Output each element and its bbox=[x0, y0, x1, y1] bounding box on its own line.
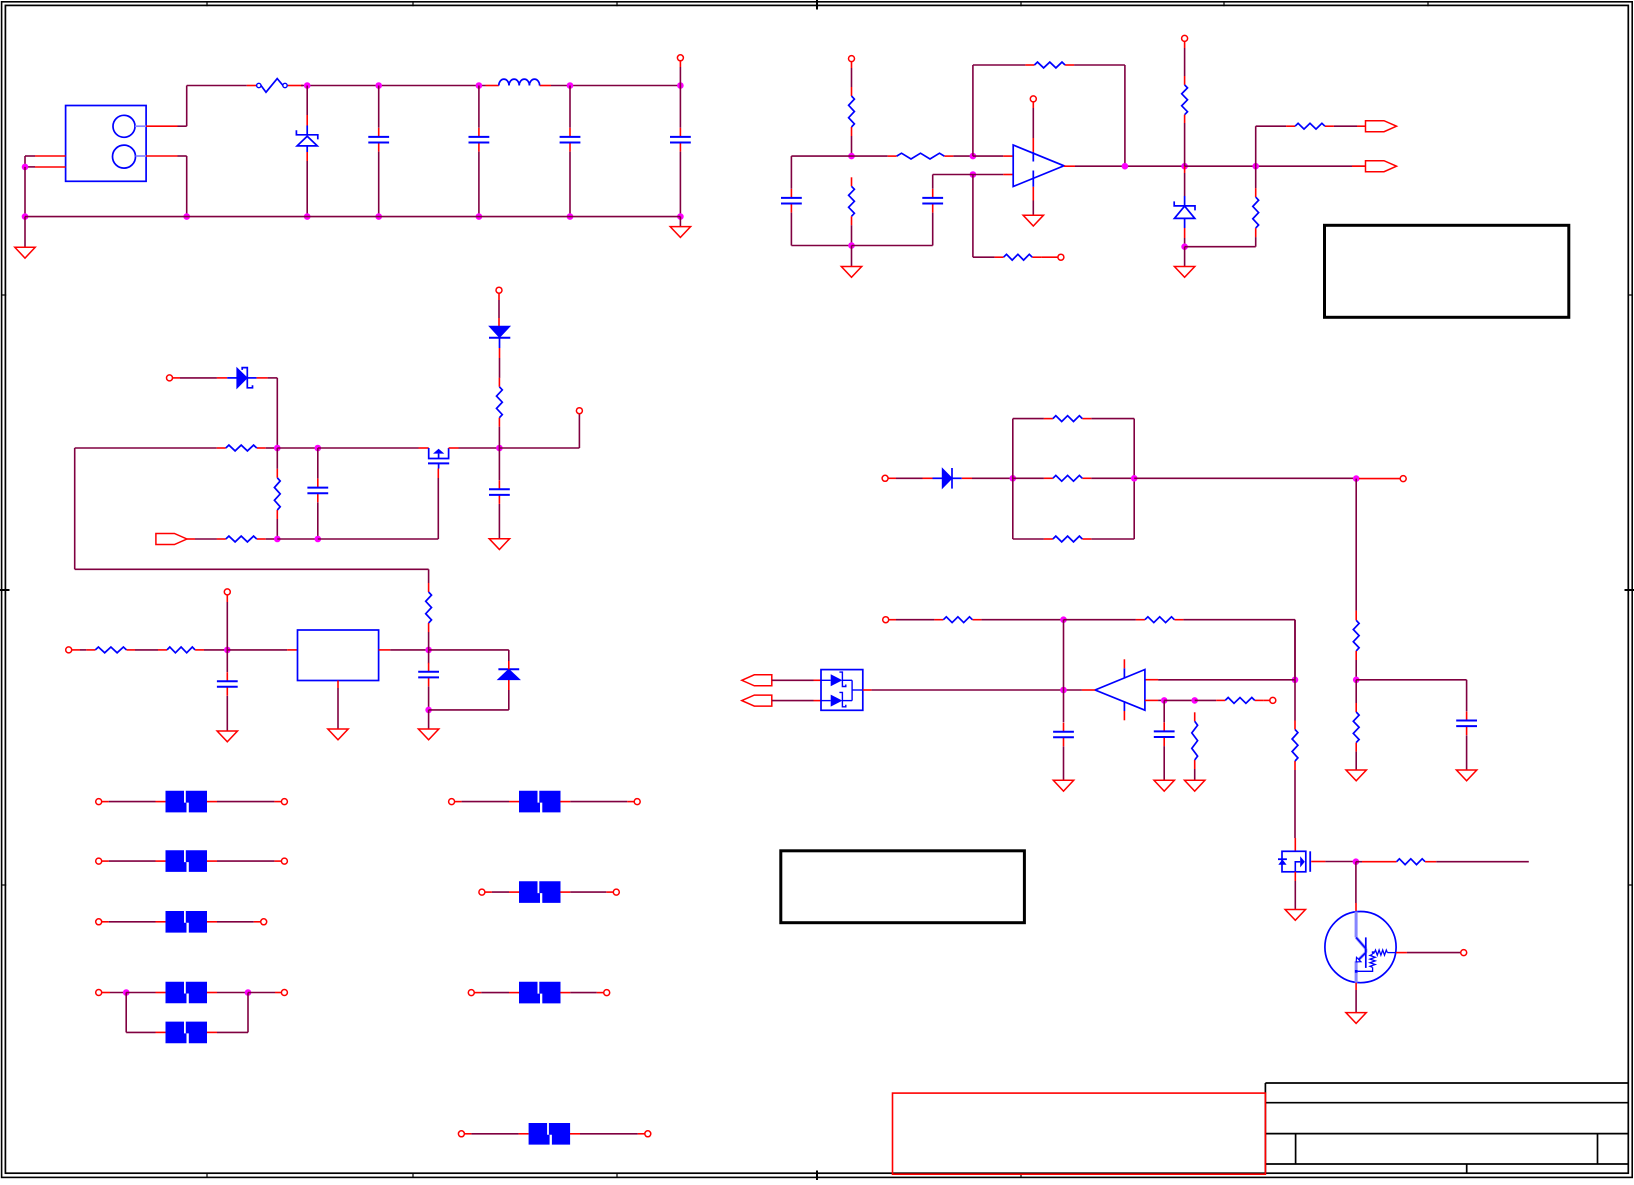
wire rreg1 right stub (pin stub) bbox=[127, 649, 136, 651]
jumper jumper W7 bbox=[519, 982, 561, 1004]
junction top rail n3 bbox=[476, 82, 483, 89]
wire jumper W1 stub L (pin stub) bbox=[102, 801, 166, 803]
ground GND reg in bbox=[217, 731, 237, 742]
wire VCC pin stub (pin stub) bbox=[679, 61, 681, 67]
ground GND reg bbox=[328, 729, 348, 740]
wire out rail2 bbox=[1185, 165, 1366, 167]
resistor R port1 bbox=[1286, 123, 1334, 129]
capacitor C cmp in bbox=[1154, 722, 1175, 746]
wire jumper W2 stub L (pin stub) bbox=[102, 860, 166, 862]
capacitor C cmp out bbox=[1053, 723, 1074, 747]
wire W4a stub R (pin stub) bbox=[207, 992, 217, 994]
resistor R in series bbox=[888, 153, 954, 159]
pin base pin bbox=[1461, 950, 1467, 956]
wire cmp in+ stub (pin stub) bbox=[1145, 679, 1158, 681]
wire top rail seg3 bbox=[551, 85, 680, 87]
wire n3 to out corner bbox=[499, 414, 579, 449]
wire fet gnd wire bbox=[1294, 881, 1296, 910]
junction net node R bbox=[1131, 475, 1138, 482]
connector J1 bbox=[66, 106, 147, 182]
wire jumper W1 wire R bbox=[217, 801, 274, 803]
wire low node down bbox=[428, 710, 430, 729]
wire rreg2 right stub (pin stub) bbox=[195, 649, 204, 651]
bottom rail wire bbox=[25, 216, 680, 218]
ground GND reg out bbox=[418, 729, 438, 740]
junction bias n1 bbox=[274, 445, 281, 452]
capacitor C filter1 bbox=[781, 189, 802, 213]
wire sense wire bbox=[896, 477, 923, 479]
capacitor C filter2 bbox=[922, 189, 943, 213]
wire fet bot stub (pin stub) bbox=[1294, 872, 1296, 881]
junction top rail n4 bbox=[567, 82, 574, 89]
wire jumper W6 stub R (pin stub) bbox=[560, 891, 613, 893]
wire J1 pin1 to fuse bbox=[178, 86, 247, 127]
op-amp U1 bbox=[1013, 145, 1064, 187]
pin vdd pin mid bbox=[496, 287, 502, 293]
wire in- jct to opamp bbox=[963, 174, 1003, 176]
wire portB wire bbox=[772, 700, 814, 702]
wire ctrl wire bbox=[195, 538, 217, 540]
wire portB stub (pin stub) bbox=[814, 700, 822, 702]
wire gate drive down bbox=[1294, 620, 1296, 680]
wire cap C2 bottom lead bbox=[478, 152, 480, 217]
wire rail to comparator bbox=[1158, 679, 1295, 681]
junction cmp rail node bbox=[1292, 677, 1299, 684]
junction top rail n5 bbox=[677, 82, 684, 89]
jumper jumper W4a bbox=[166, 982, 208, 1004]
junction in+ junction bbox=[970, 153, 977, 160]
junction vmon node bbox=[1353, 475, 1360, 482]
jumper jumper W2 bbox=[166, 850, 208, 872]
resistor R divider low bbox=[849, 177, 855, 225]
capacitor C out mid bbox=[489, 480, 510, 504]
wire cap1 down to rail bbox=[791, 213, 851, 246]
zener D2 bbox=[1174, 166, 1195, 247]
junction div mid node bbox=[1353, 677, 1360, 684]
junction reg in node bbox=[224, 647, 231, 654]
wire jumper W2 wire L bbox=[109, 860, 156, 862]
pin V+ pin opamp bbox=[849, 56, 855, 62]
wire jumper W3 wire R bbox=[217, 921, 254, 923]
inductor L1 bbox=[486, 79, 552, 85]
pin hyst pin bbox=[1270, 697, 1276, 703]
wire vmon down bbox=[1355, 479, 1357, 611]
junction bias n4 bbox=[274, 536, 281, 543]
wire rb2 top bbox=[276, 448, 278, 469]
wire cout top bbox=[428, 650, 430, 664]
junction top rail n2 bbox=[375, 82, 382, 89]
junction cmp in- node2 bbox=[1191, 697, 1198, 704]
junction bottom rail c2 bbox=[476, 213, 483, 220]
resistor R par2 bbox=[1044, 475, 1091, 481]
resistor R vplus bbox=[849, 87, 855, 136]
wire J1 pin1 stub (pin stub) bbox=[146, 125, 177, 127]
port OUT1 bbox=[1366, 121, 1397, 132]
zener D1 bbox=[296, 86, 317, 217]
pin jumper W8 left pin bbox=[458, 1131, 464, 1137]
pin bias out pin bbox=[576, 408, 582, 414]
pin sense pin bbox=[882, 475, 888, 481]
junction out pullup node bbox=[1181, 163, 1188, 170]
wire ref wire3 bbox=[1064, 619, 1136, 621]
wire ref wire2 bbox=[981, 619, 1063, 621]
transistor Q3 (digital) bbox=[1325, 912, 1396, 983]
wire zin stub (pin stub) bbox=[172, 377, 227, 379]
wire rdiv to rail bbox=[851, 225, 853, 245]
wire W4 wire L bbox=[110, 992, 126, 994]
resistor R par3 bbox=[1044, 536, 1091, 542]
pin zin pin bbox=[167, 375, 173, 381]
wire cout2 bottom bbox=[1063, 746, 1065, 780]
resistor R div top bbox=[1353, 620, 1359, 651]
wire W4 nodeL to comp bbox=[126, 992, 155, 994]
resistor R drive bbox=[1397, 859, 1426, 865]
wire sense stub (pin stub) bbox=[888, 477, 933, 479]
wire jumper W5 wire R bbox=[570, 801, 627, 803]
wire jumper W2 stub R (pin stub) bbox=[207, 860, 282, 862]
wire n2 to fet bbox=[318, 447, 419, 449]
wire tr emitter stub (pin stub) bbox=[1355, 983, 1357, 990]
wire W4b stub L (pin stub) bbox=[156, 1031, 166, 1033]
wire regin stub (pin stub) bbox=[72, 649, 96, 651]
wire cout top bbox=[1063, 690, 1065, 722]
wire in+ node to R bbox=[852, 155, 888, 157]
wire top rail seg2 bbox=[379, 85, 486, 87]
pin reg in pin bbox=[66, 647, 72, 653]
wire jumper W6 wire L bbox=[492, 891, 509, 893]
wire jumper W6 stub L (pin stub) bbox=[485, 891, 519, 893]
MOSFET Q1 (current regulator) bbox=[428, 448, 449, 469]
jumper jumper W6 bbox=[519, 881, 561, 903]
junction bottom rail c1 bbox=[375, 213, 382, 220]
junction bottom rail at connector drop bbox=[183, 213, 190, 220]
wire cin bot bbox=[226, 696, 228, 731]
capacitor C1 bbox=[368, 128, 389, 152]
wire cmp out wire bbox=[871, 689, 1082, 691]
pin jumper W7 left pin bbox=[468, 990, 474, 996]
junction reg out node bbox=[425, 647, 432, 654]
wire d6 to network bbox=[972, 477, 1013, 479]
wire V+ down bbox=[851, 68, 853, 87]
ground GND cap right bbox=[1456, 770, 1476, 781]
wire cb bot bbox=[317, 502, 319, 539]
wire rdivt stub (pin stub) bbox=[1355, 611, 1357, 621]
wire opamp out stub (pin stub) bbox=[1064, 165, 1075, 167]
wire fet stub left (pin stub) bbox=[419, 447, 429, 449]
wire base pin wire bbox=[1407, 952, 1461, 954]
wire W4b stub R (pin stub) bbox=[207, 1031, 217, 1033]
wire cap C2 top lead bbox=[478, 86, 480, 128]
pin jumper W3 right pin bbox=[261, 919, 267, 925]
wire jumper W3 wire L bbox=[109, 921, 156, 923]
wire jumper W1 wire L bbox=[109, 801, 156, 803]
wire cin- bot bbox=[1163, 746, 1165, 780]
capacitor C reg out bbox=[418, 663, 439, 687]
pin ref pin bbox=[883, 617, 889, 623]
wire ref down to out node bbox=[1063, 620, 1065, 690]
wire R to in+ jct bbox=[953, 155, 973, 157]
wire cmp out stub (pin stub) bbox=[1082, 689, 1095, 691]
wire opamp V+ stub (pin stub) bbox=[1032, 102, 1034, 152]
wire port1 stub (pin stub) bbox=[1357, 125, 1366, 127]
wire cmp in- stub (pin stub) bbox=[1145, 699, 1158, 701]
wire long feed left bbox=[75, 448, 429, 583]
resistor R gate bbox=[1292, 721, 1298, 771]
junction drive node bbox=[1353, 858, 1360, 865]
junction out fb node bbox=[1122, 163, 1129, 170]
pin opamp V+ pin bbox=[1030, 96, 1036, 102]
wire jumper W7 stub L (pin stub) bbox=[474, 992, 519, 994]
wire jumper W8 stub R (pin stub) bbox=[570, 1133, 645, 1135]
resistor R cmp in bbox=[1192, 712, 1198, 769]
wire cap C1 top lead bbox=[378, 86, 380, 128]
wire n1 to n2 bbox=[277, 447, 318, 449]
wire gate stub (pin stub) bbox=[437, 469, 439, 479]
wire cin- top bbox=[1163, 700, 1165, 722]
resistor R bias2 bbox=[274, 469, 280, 519]
wire drive out bbox=[1436, 861, 1529, 863]
wire jumper W8 wire R bbox=[580, 1133, 638, 1135]
resistor R ref1 bbox=[934, 617, 981, 623]
wire W4 stub L (pin stub) bbox=[102, 992, 110, 994]
junction cmp in- node1 bbox=[1161, 697, 1168, 704]
pin jumper W2 right pin bbox=[281, 858, 287, 864]
wire in+ jct to opamp bbox=[973, 155, 1003, 157]
wire rreg2 left stub (pin stub) bbox=[158, 649, 167, 651]
wire pullup wire bbox=[1184, 48, 1186, 76]
wire rdrive stub L (pin stub) bbox=[1362, 861, 1397, 863]
wire jumper W7 stub R (pin stub) bbox=[560, 992, 604, 994]
capacitor C bias bbox=[307, 479, 328, 503]
wire d5 top to node bbox=[429, 649, 509, 651]
wire top row left bbox=[75, 447, 217, 449]
junction bias n3 bbox=[496, 445, 503, 452]
resistor R par zener bbox=[1253, 188, 1259, 237]
port CTRL in bbox=[156, 534, 187, 545]
junction W4 node L bbox=[123, 989, 130, 996]
comparator U3 bbox=[1095, 668, 1145, 711]
resistor R reg2 bbox=[167, 647, 195, 653]
wire jumper W6 wire R bbox=[570, 891, 606, 893]
wire cmp pwr stub top (pin stub) bbox=[1123, 659, 1125, 668]
wire rpar bottom bbox=[1185, 237, 1256, 247]
ground GND input bbox=[15, 217, 35, 259]
pin reg aux pin bbox=[224, 589, 230, 595]
wire rb3 to n4 bbox=[266, 538, 278, 540]
wire fet stub right (pin stub) bbox=[449, 447, 459, 449]
junction cmp out node bbox=[1060, 687, 1067, 694]
wire in- down bbox=[973, 175, 995, 258]
wire R bias1 to n bbox=[266, 447, 278, 449]
pin vmon pin bbox=[1400, 476, 1406, 482]
wire regin wire0 bbox=[80, 649, 86, 651]
wire vdd wire mid bbox=[498, 300, 500, 318]
wire jumper W8 stub L (pin stub) bbox=[464, 1133, 528, 1135]
wire cap C4 top lead bbox=[679, 86, 681, 128]
port COMM A bbox=[742, 675, 772, 686]
wire rreg1 to rreg2 bbox=[135, 649, 158, 651]
ground GND mid bbox=[489, 539, 509, 550]
junction opamp in+ node bbox=[848, 153, 855, 160]
ground GND cmp out bbox=[1053, 780, 1073, 791]
ground GND opamp div bbox=[841, 246, 861, 278]
wire in+ stub (pin stub) bbox=[1003, 155, 1013, 157]
wire W4a to nodeR bbox=[217, 992, 248, 994]
wire d4 to res bbox=[499, 358, 501, 378]
wire ref stub (pin stub) bbox=[889, 619, 896, 621]
text box note1 bbox=[1325, 225, 1569, 317]
wire zin wire bbox=[180, 377, 217, 379]
wire hyst pin stub (pin stub) bbox=[1264, 699, 1270, 701]
wire parallel network frame bbox=[1013, 419, 1134, 539]
wire W4 nodeR to pin bbox=[248, 992, 275, 994]
pin VCC pin bbox=[677, 55, 683, 61]
wire reg in stub (pin stub) bbox=[287, 649, 297, 651]
wire tvs out stub (pin stub) bbox=[863, 689, 872, 691]
wire jumper W2 wire R bbox=[217, 860, 274, 862]
ground GND cmp r bbox=[1185, 780, 1205, 791]
wire rreg2 to node bbox=[204, 649, 227, 651]
junction bottom rail nz bbox=[304, 213, 311, 220]
pin jumper W5 right pin bbox=[634, 799, 640, 805]
wire feedback up bbox=[973, 65, 1026, 156]
wire drive node gap bbox=[1356, 861, 1362, 863]
wire pullup to rail bbox=[1184, 123, 1186, 166]
wire J1 pin2 down bbox=[178, 156, 187, 217]
pin jumper W7 right pin bbox=[604, 990, 610, 996]
capacitor C3 bbox=[560, 128, 581, 152]
wire node to transistor bbox=[1355, 862, 1357, 903]
wire reg out wire bbox=[390, 649, 428, 651]
resistor R feedback bbox=[1025, 62, 1074, 68]
text box note2 bbox=[781, 851, 1025, 923]
wire W4a stub L (pin stub) bbox=[156, 992, 166, 994]
wire rdivt stub2 (pin stub) bbox=[1355, 651, 1357, 660]
resistor R gain bbox=[995, 254, 1042, 260]
wire port2 stub (pin stub) bbox=[1352, 165, 1366, 167]
wire rb4 to n3 bbox=[498, 427, 500, 448]
wire net to out bbox=[1134, 477, 1353, 479]
MOSFET Q2 with body diode bbox=[1278, 851, 1310, 872]
wire R to node bbox=[851, 136, 853, 156]
wire gate res to fet bbox=[1294, 770, 1296, 838]
diode D5 bbox=[498, 650, 520, 690]
wire jumper W3 stub R (pin stub) bbox=[207, 921, 261, 923]
revision area red box bbox=[893, 1093, 1266, 1174]
wire cap C3 bottom lead bbox=[569, 152, 571, 217]
junction gnd node opamp bbox=[848, 242, 855, 249]
junction net node L bbox=[1010, 475, 1017, 482]
wire reg out stub (pin stub) bbox=[379, 649, 391, 651]
wire cap C3 top lead bbox=[569, 86, 571, 128]
wire rail right bbox=[1356, 680, 1466, 712]
port COMM B bbox=[742, 695, 772, 706]
capacitor C far right bbox=[1456, 712, 1477, 736]
wire n5 right up to gate bbox=[318, 478, 439, 539]
wire node left to cap bbox=[791, 156, 851, 189]
wire rcmp bot bbox=[1194, 769, 1196, 780]
wire cap2 up to in- bbox=[933, 175, 963, 189]
wire feedback right bbox=[1074, 65, 1125, 166]
title block bbox=[1265, 1083, 1628, 1173]
pin jumper W3 left pin bbox=[96, 919, 102, 925]
junction bias n5 bbox=[315, 536, 322, 543]
wire opamp V- stub (pin stub) bbox=[1032, 187, 1034, 201]
wire opamp V- wire bbox=[1032, 201, 1034, 216]
junction out port node bbox=[1252, 163, 1259, 170]
resistor R feed bbox=[426, 583, 432, 632]
resistor R pullup bbox=[1182, 85, 1188, 115]
wire cap midout down bbox=[498, 504, 500, 539]
wire node to reg bbox=[227, 649, 287, 651]
wire cmp pwr stub bot (pin stub) bbox=[1123, 711, 1125, 720]
wire tr base stub (pin stub) bbox=[1396, 952, 1407, 954]
ground GND rail bbox=[670, 217, 690, 238]
wire left pins tie bbox=[25, 156, 35, 167]
ground GND transistor bbox=[1346, 1013, 1366, 1024]
wire port1 wire bbox=[1334, 125, 1357, 127]
TVS dual diode D7 bbox=[821, 670, 863, 711]
wire tie down to rail bbox=[24, 167, 26, 217]
wire jumper W1 stub R (pin stub) bbox=[207, 801, 282, 803]
wire ctrl stub (pin stub) bbox=[187, 538, 195, 540]
wire jumper W8 wire L bbox=[471, 1133, 518, 1135]
resistor R bias4 bbox=[497, 378, 503, 427]
wire cap C4 bottom lead bbox=[679, 152, 681, 217]
wire n4 to n5 bbox=[277, 538, 318, 540]
wire top rail seg1 bbox=[301, 85, 379, 87]
wire cb top bbox=[317, 448, 319, 479]
wire fet to node bbox=[1325, 861, 1353, 863]
fuse F1 bbox=[247, 79, 303, 93]
wire rb2 bot bbox=[276, 519, 278, 539]
resistor R hyst bbox=[1216, 698, 1264, 704]
wire portA wire bbox=[772, 679, 814, 681]
pin jumper W2 left pin bbox=[96, 858, 102, 864]
wire rail to cap2 bbox=[852, 213, 933, 246]
resistor R reg1 bbox=[95, 647, 126, 653]
port OUT2 bbox=[1366, 161, 1397, 172]
wire opamp V+ wire bbox=[1032, 108, 1034, 138]
wire ref wire bbox=[896, 619, 934, 621]
wire rdrive stub R (pin stub) bbox=[1425, 861, 1436, 863]
wire W4b branch R bbox=[217, 993, 248, 1033]
wire rail to gate res bbox=[1294, 680, 1296, 721]
jumper jumper W5 bbox=[519, 791, 561, 813]
resistor R div low bbox=[1353, 703, 1359, 752]
wire gain pin stub (pin stub) bbox=[1041, 256, 1058, 258]
pin jumper W6 right pin bbox=[613, 889, 619, 895]
wire ref wire4 bbox=[1183, 620, 1295, 680]
wire rpar top bbox=[1255, 166, 1257, 188]
junction in- junction bbox=[970, 171, 977, 178]
jumper jumper W4b bbox=[166, 1022, 208, 1044]
resistor R par1 bbox=[1044, 416, 1091, 422]
pin jumper W6 left pin bbox=[479, 889, 485, 895]
ground GND zener bbox=[1174, 247, 1194, 278]
wire rfeed to node bbox=[428, 632, 430, 650]
pin jumper W4 right pin bbox=[281, 990, 287, 996]
pin pullup pin bbox=[1182, 35, 1188, 41]
wire W4 stub R (pin stub) bbox=[275, 992, 282, 994]
wire pullup lower stub (pin stub) bbox=[1184, 115, 1186, 123]
pin jumper W4 left pin bbox=[96, 990, 102, 996]
diode D4 bbox=[489, 326, 510, 348]
wire rdivl bot bbox=[1355, 752, 1357, 770]
wire jumper W7 wire R bbox=[570, 992, 596, 994]
pin jumper W8 right pin bbox=[645, 1131, 651, 1137]
junction top rail n1 bbox=[304, 82, 311, 89]
